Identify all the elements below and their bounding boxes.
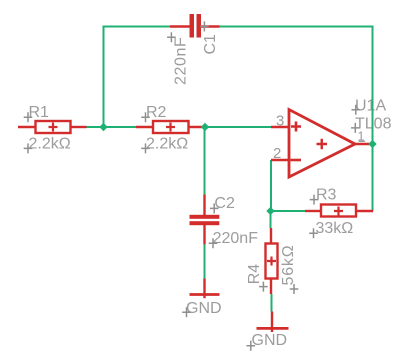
svg-text:2.2kΩ: 2.2kΩ <box>29 136 71 153</box>
svg-text:GND: GND <box>186 300 222 317</box>
svg-text:2: 2 <box>273 145 281 162</box>
svg-text:56kΩ: 56kΩ <box>280 245 297 286</box>
svg-text:3: 3 <box>276 112 284 129</box>
svg-text:U1A: U1A <box>355 98 386 115</box>
svg-text:R2: R2 <box>146 104 167 121</box>
svg-text:220nF: 220nF <box>213 230 259 247</box>
svg-text:220nF: 220nF <box>173 37 190 85</box>
svg-text:C2: C2 <box>214 195 235 212</box>
svg-text:C1: C1 <box>202 34 219 55</box>
svg-text:33kΩ: 33kΩ <box>316 220 354 237</box>
svg-text:2.2kΩ: 2.2kΩ <box>146 136 188 153</box>
svg-text:R1: R1 <box>29 104 50 121</box>
svg-text:GND: GND <box>252 332 288 349</box>
svg-text:R3: R3 <box>316 186 337 203</box>
svg-text:R4: R4 <box>246 264 263 285</box>
